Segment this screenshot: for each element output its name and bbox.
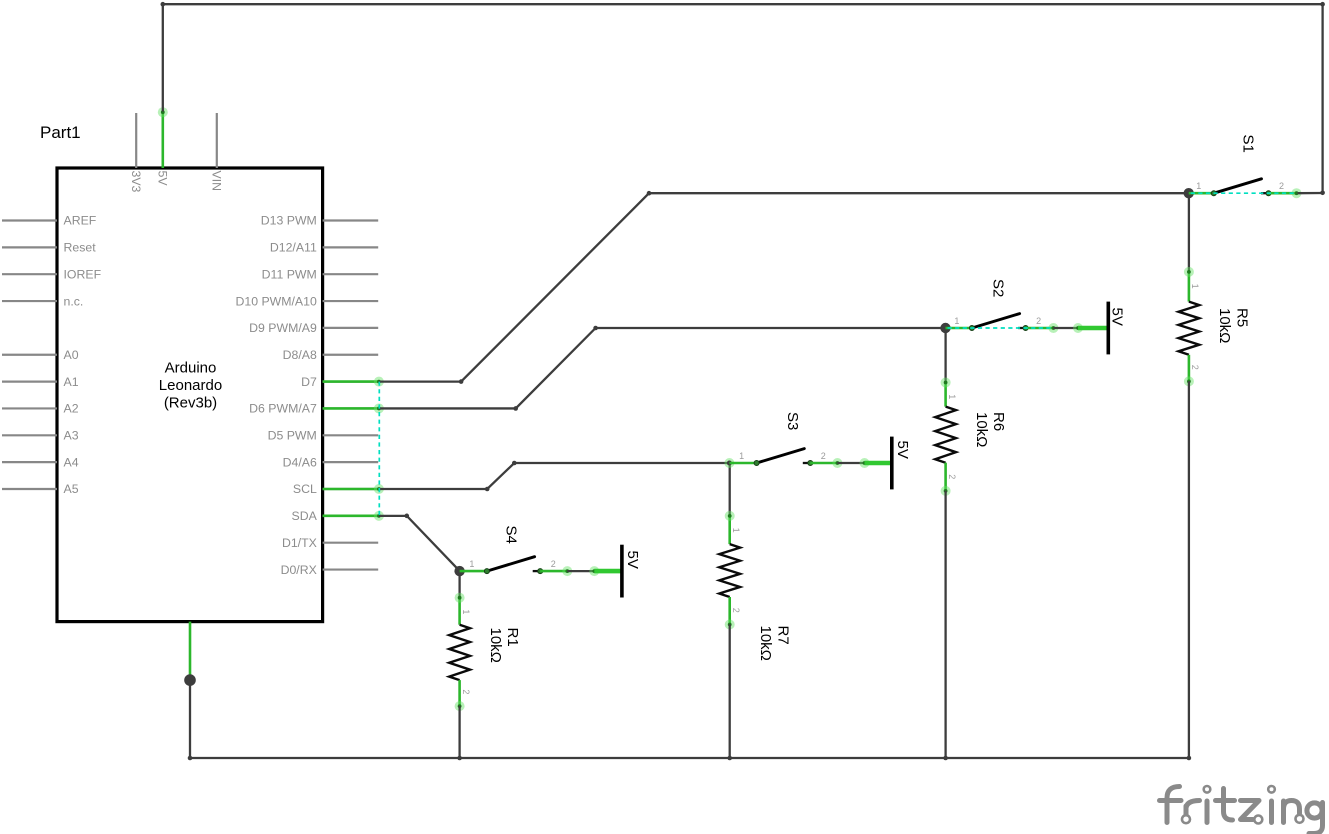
resistor R6 pin2 lead	[944, 463, 947, 492]
resistor R6 pin1 glow	[941, 378, 951, 388]
switch S2 pin1 contact	[969, 326, 974, 331]
arduino pin SCL end glow	[374, 484, 384, 494]
svg-text:D10 PWM/A10: D10 PWM/A10	[235, 294, 316, 308]
arduino pin A1 stub	[2, 381, 57, 383]
resistor R1 pin2 lead	[458, 680, 461, 707]
arduino pin A5 stub	[2, 488, 57, 490]
resistor R5 zigzag	[1179, 302, 1200, 355]
svg-text:VIN: VIN	[209, 171, 223, 192]
resistor R5 pin1 glow	[1184, 267, 1194, 277]
arduino pin D5 PWM stub	[323, 434, 379, 436]
svg-text:10kΩ: 10kΩ	[487, 628, 504, 663]
svg-text:10kΩ: 10kΩ	[1216, 308, 1233, 343]
switch S4 pin1 contact	[484, 569, 489, 574]
arduino pin D1/TX stub	[323, 542, 379, 544]
arduino pin 5V end glow	[158, 107, 168, 117]
bend D7 a	[459, 379, 464, 384]
arduino pin D13 PWM stub	[323, 219, 379, 221]
svg-text:Reset: Reset	[64, 241, 97, 255]
svg-text:2: 2	[821, 451, 826, 461]
arduino pin AREF stub	[2, 219, 57, 221]
arduino pin 5V green wire	[162, 112, 165, 169]
node S3 glowA	[832, 458, 842, 468]
wire D7 to S1	[379, 193, 1189, 381]
svg-text:Arduino: Arduino	[165, 360, 217, 377]
svg-text:D1/TX: D1/TX	[282, 536, 317, 550]
resistor R7 pin1 glow	[725, 511, 735, 521]
bend GND rail left	[188, 756, 193, 761]
svg-text:2: 2	[731, 608, 741, 613]
arduino pin 3V3 stub	[135, 113, 137, 168]
arduino pin SDA end glow	[374, 511, 384, 521]
wire S3 pin2-seg1 (green)	[810, 462, 837, 465]
junction S3 node	[724, 458, 734, 468]
power 5V bar (S4)	[620, 545, 624, 598]
switch S2 pin2 stub	[1018, 327, 1025, 329]
node S1 glowA	[1292, 188, 1302, 198]
power 5V bar (S3)	[890, 437, 894, 490]
svg-text:5V: 5V	[1109, 308, 1126, 326]
bend right-S1	[1320, 191, 1325, 196]
svg-text:D7: D7	[301, 375, 317, 389]
ratsnest D7-SDA dashed	[378, 382, 380, 516]
svg-text:A1: A1	[64, 375, 79, 389]
switch S1 pin2 contact	[1266, 191, 1271, 196]
wire S3 seg2	[837, 462, 864, 464]
arduino pin A4 stub	[2, 461, 57, 463]
arduino pin D7 stub	[323, 381, 379, 383]
svg-text:10kΩ: 10kΩ	[973, 412, 990, 447]
wire below R6	[944, 491, 946, 758]
bend SCL b	[512, 461, 517, 466]
bend D7 b	[647, 191, 652, 196]
svg-text:5V: 5V	[894, 441, 911, 459]
svg-text:2: 2	[947, 474, 957, 479]
junction R1-rail	[457, 756, 462, 761]
switch S2 pin2 contact	[1023, 326, 1028, 331]
wire above R1	[458, 571, 460, 598]
node S3 glowB	[860, 458, 870, 468]
wire GND down	[189, 680, 191, 758]
switch S3 pin2 contact	[808, 461, 813, 466]
svg-text:2: 2	[1279, 181, 1284, 191]
svg-text:5V: 5V	[624, 551, 641, 569]
wire S4 junction-pin1 (green)	[460, 570, 487, 573]
svg-text:3V3: 3V3	[129, 171, 143, 193]
svg-text:1: 1	[1196, 181, 1201, 191]
node S4 glowA	[562, 566, 572, 576]
wire below R1	[458, 706, 460, 758]
svg-text:2: 2	[551, 559, 556, 569]
switch S4 lever	[487, 557, 535, 571]
svg-text:R1: R1	[504, 628, 521, 647]
wire S4 seg3 (thick green)	[594, 569, 622, 574]
wire S3 junction-pin1 (green)	[729, 462, 756, 465]
arduino pin D6 PWM/A7 green wire	[323, 407, 379, 410]
wire above R6	[944, 328, 946, 383]
svg-text:D13 PWM: D13 PWM	[261, 214, 317, 228]
bend rail-R5 corner	[1187, 756, 1192, 761]
svg-text:S2: S2	[990, 279, 1007, 297]
svg-text:D0/RX: D0/RX	[281, 563, 317, 577]
wire S4 seg2	[567, 570, 594, 572]
arduino pin D8/A8 stub	[323, 354, 379, 356]
arduino pin A3 stub	[2, 434, 57, 436]
wire SDA to S4	[379, 516, 460, 571]
bend SCL a	[485, 487, 490, 492]
resistor R1 zigzag	[449, 625, 470, 680]
arduino pin 5V stub	[162, 113, 164, 168]
ratsnest S2 dashed	[948, 327, 1054, 329]
svg-text:A0: A0	[64, 348, 79, 362]
arduino pin GND stub (green)	[189, 622, 192, 679]
arduino pin SCL stub	[323, 488, 379, 490]
svg-text:10kΩ: 10kΩ	[757, 626, 774, 661]
svg-text:2: 2	[1190, 365, 1200, 370]
arduino pin A2 stub	[2, 407, 57, 409]
switch S3 pin1 contact	[754, 461, 759, 466]
arduino pin SCL green wire	[323, 488, 379, 491]
fritzing logo	[1160, 787, 1323, 834]
arduino pin D10 PWM/A10 stub	[323, 300, 379, 302]
wire below R7	[729, 624, 731, 758]
svg-text:D9 PWM/A9: D9 PWM/A9	[249, 321, 317, 335]
resistor R1 pin1 lead	[458, 597, 461, 625]
wire above R5	[1188, 193, 1190, 272]
svg-text:2: 2	[1036, 316, 1041, 326]
svg-text:A2: A2	[64, 402, 79, 416]
arduino pin SDA stub	[323, 515, 379, 517]
bend D6 a	[513, 406, 518, 411]
svg-text:(Rev3b): (Rev3b)	[164, 395, 217, 412]
resistor R5 pin2 lead	[1188, 355, 1191, 382]
svg-text:S3: S3	[784, 412, 801, 430]
svg-text:1: 1	[954, 316, 959, 326]
svg-text:IOREF: IOREF	[64, 267, 102, 281]
resistor R7 pin2 glow	[725, 620, 735, 630]
svg-text:n.c.: n.c.	[64, 294, 84, 308]
switch S1 pin2 stub	[1261, 192, 1268, 194]
wire S2 pin2-seg1 (green)	[1026, 327, 1054, 330]
wire S1 pin2-seg1 (green)	[1269, 192, 1297, 195]
svg-text:Part1: Part1	[40, 123, 81, 142]
svg-text:D12/A11: D12/A11	[270, 241, 317, 255]
junction S1 node	[1184, 188, 1194, 198]
resistor R1 pin1 glow	[455, 593, 465, 603]
arduino pin D7 end glow	[374, 377, 384, 387]
svg-text:1: 1	[461, 609, 471, 614]
svg-text:D6 PWM/A7: D6 PWM/A7	[249, 402, 317, 416]
arduino pin D4/A6 stub	[323, 461, 379, 463]
svg-text:1: 1	[469, 559, 474, 569]
svg-text:R6: R6	[990, 412, 1007, 431]
wire S4 pin2-seg1 (green)	[540, 570, 567, 573]
arduino U1 Part1 body	[57, 168, 323, 622]
arduino pin A0 stub	[2, 354, 57, 356]
svg-text:1: 1	[731, 528, 741, 533]
arduino pin D9 PWM/A9 stub	[323, 327, 379, 329]
wire S2 seg2	[1053, 327, 1078, 329]
switch S2 lever	[972, 314, 1020, 328]
svg-text:1: 1	[739, 451, 744, 461]
node S4 glowB	[589, 566, 599, 576]
junction S4 node	[454, 566, 464, 576]
svg-text:R7: R7	[774, 626, 791, 645]
wire GND bottom rail	[190, 757, 1189, 759]
arduino pin IOREF stub	[2, 273, 57, 275]
svg-text:2: 2	[461, 689, 471, 694]
arduino pin D6 PWM/A7 stub	[323, 407, 379, 409]
svg-text:AREF: AREF	[64, 214, 97, 228]
bend top-left	[161, 2, 166, 7]
svg-text:R5: R5	[1234, 308, 1251, 327]
arduino pin D12/A11 stub	[323, 246, 379, 248]
resistor R6 pin2 glow	[941, 486, 951, 496]
wire SCL to S3	[379, 463, 730, 489]
resistor R6 zigzag	[935, 407, 956, 463]
svg-text:A3: A3	[64, 429, 79, 443]
power 5V bar (S2)	[1107, 302, 1111, 355]
junction S2 node	[940, 323, 950, 333]
switch S1 pin1 contact	[1211, 191, 1216, 196]
svg-text:Leonardo: Leonardo	[159, 377, 222, 394]
bend D6 b	[593, 326, 598, 331]
wire S3 seg3 (thick green)	[865, 461, 892, 466]
svg-text:S4: S4	[503, 526, 520, 544]
resistor R7 pin2 lead	[728, 597, 731, 625]
wire S2 seg3 (thick green)	[1078, 326, 1108, 331]
svg-text:D5 PWM: D5 PWM	[268, 429, 317, 443]
svg-text:D4/A6: D4/A6	[283, 455, 317, 469]
resistor R5 pin1 lead	[1188, 271, 1191, 302]
resistor R6 pin1 lead	[944, 382, 947, 407]
bend top-right	[1320, 2, 1325, 7]
resistor R7 zigzag	[719, 544, 740, 597]
wire below R5	[1188, 381, 1190, 758]
switch S3 lever	[757, 449, 805, 463]
svg-text:SCL: SCL	[293, 482, 317, 496]
svg-text:SDA: SDA	[292, 509, 318, 523]
svg-text:A5: A5	[64, 482, 79, 496]
wire S1 junction-pin1 (green)	[1189, 192, 1214, 195]
svg-text:1: 1	[947, 394, 957, 399]
arduino pin VIN stub	[216, 113, 218, 168]
svg-text:D11 PWM: D11 PWM	[262, 267, 317, 281]
svg-text:1: 1	[1190, 284, 1200, 289]
switch S3 pin2 stub	[803, 462, 810, 464]
arduino pin Reset stub	[2, 246, 57, 248]
resistor R1 pin2 glow	[455, 701, 465, 711]
junction R6-rail	[943, 756, 948, 761]
switch S4 pin2 contact	[538, 569, 543, 574]
resistor R5 pin2 glow	[1184, 376, 1194, 386]
node S2 glowA	[1048, 323, 1058, 333]
svg-text:D8/A8: D8/A8	[283, 348, 317, 362]
bend SDA a	[405, 514, 410, 519]
junction GND pin	[184, 674, 196, 686]
arduino pin SDA green wire	[323, 515, 379, 518]
svg-text:S1: S1	[1240, 135, 1257, 153]
node S2 glowB	[1073, 323, 1083, 333]
switch S1 lever	[1214, 179, 1262, 193]
arduino pin D6 PWM/A7 end glow	[374, 403, 384, 413]
wire above R7	[729, 463, 731, 516]
wire S1 pin2 tail dark	[1298, 192, 1323, 194]
arduino pin n.c. stub	[2, 300, 57, 302]
wire S2 junction-pin1 (green)	[946, 327, 972, 330]
ratsnest S1 dashed	[1191, 192, 1297, 194]
svg-text:5V: 5V	[155, 171, 169, 187]
svg-text:A4: A4	[64, 455, 79, 469]
junction R7-rail	[727, 756, 732, 761]
arduino pin D0/RX stub	[323, 568, 379, 570]
switch S4 pin2 stub	[533, 570, 540, 572]
arduino pin D11 PWM stub	[323, 273, 379, 275]
arduino pin D7 green wire	[323, 380, 379, 383]
wire 5V-net top run	[163, 4, 1323, 193]
resistor R7 pin1 lead	[728, 515, 731, 544]
wire D6 to S2	[379, 328, 946, 408]
